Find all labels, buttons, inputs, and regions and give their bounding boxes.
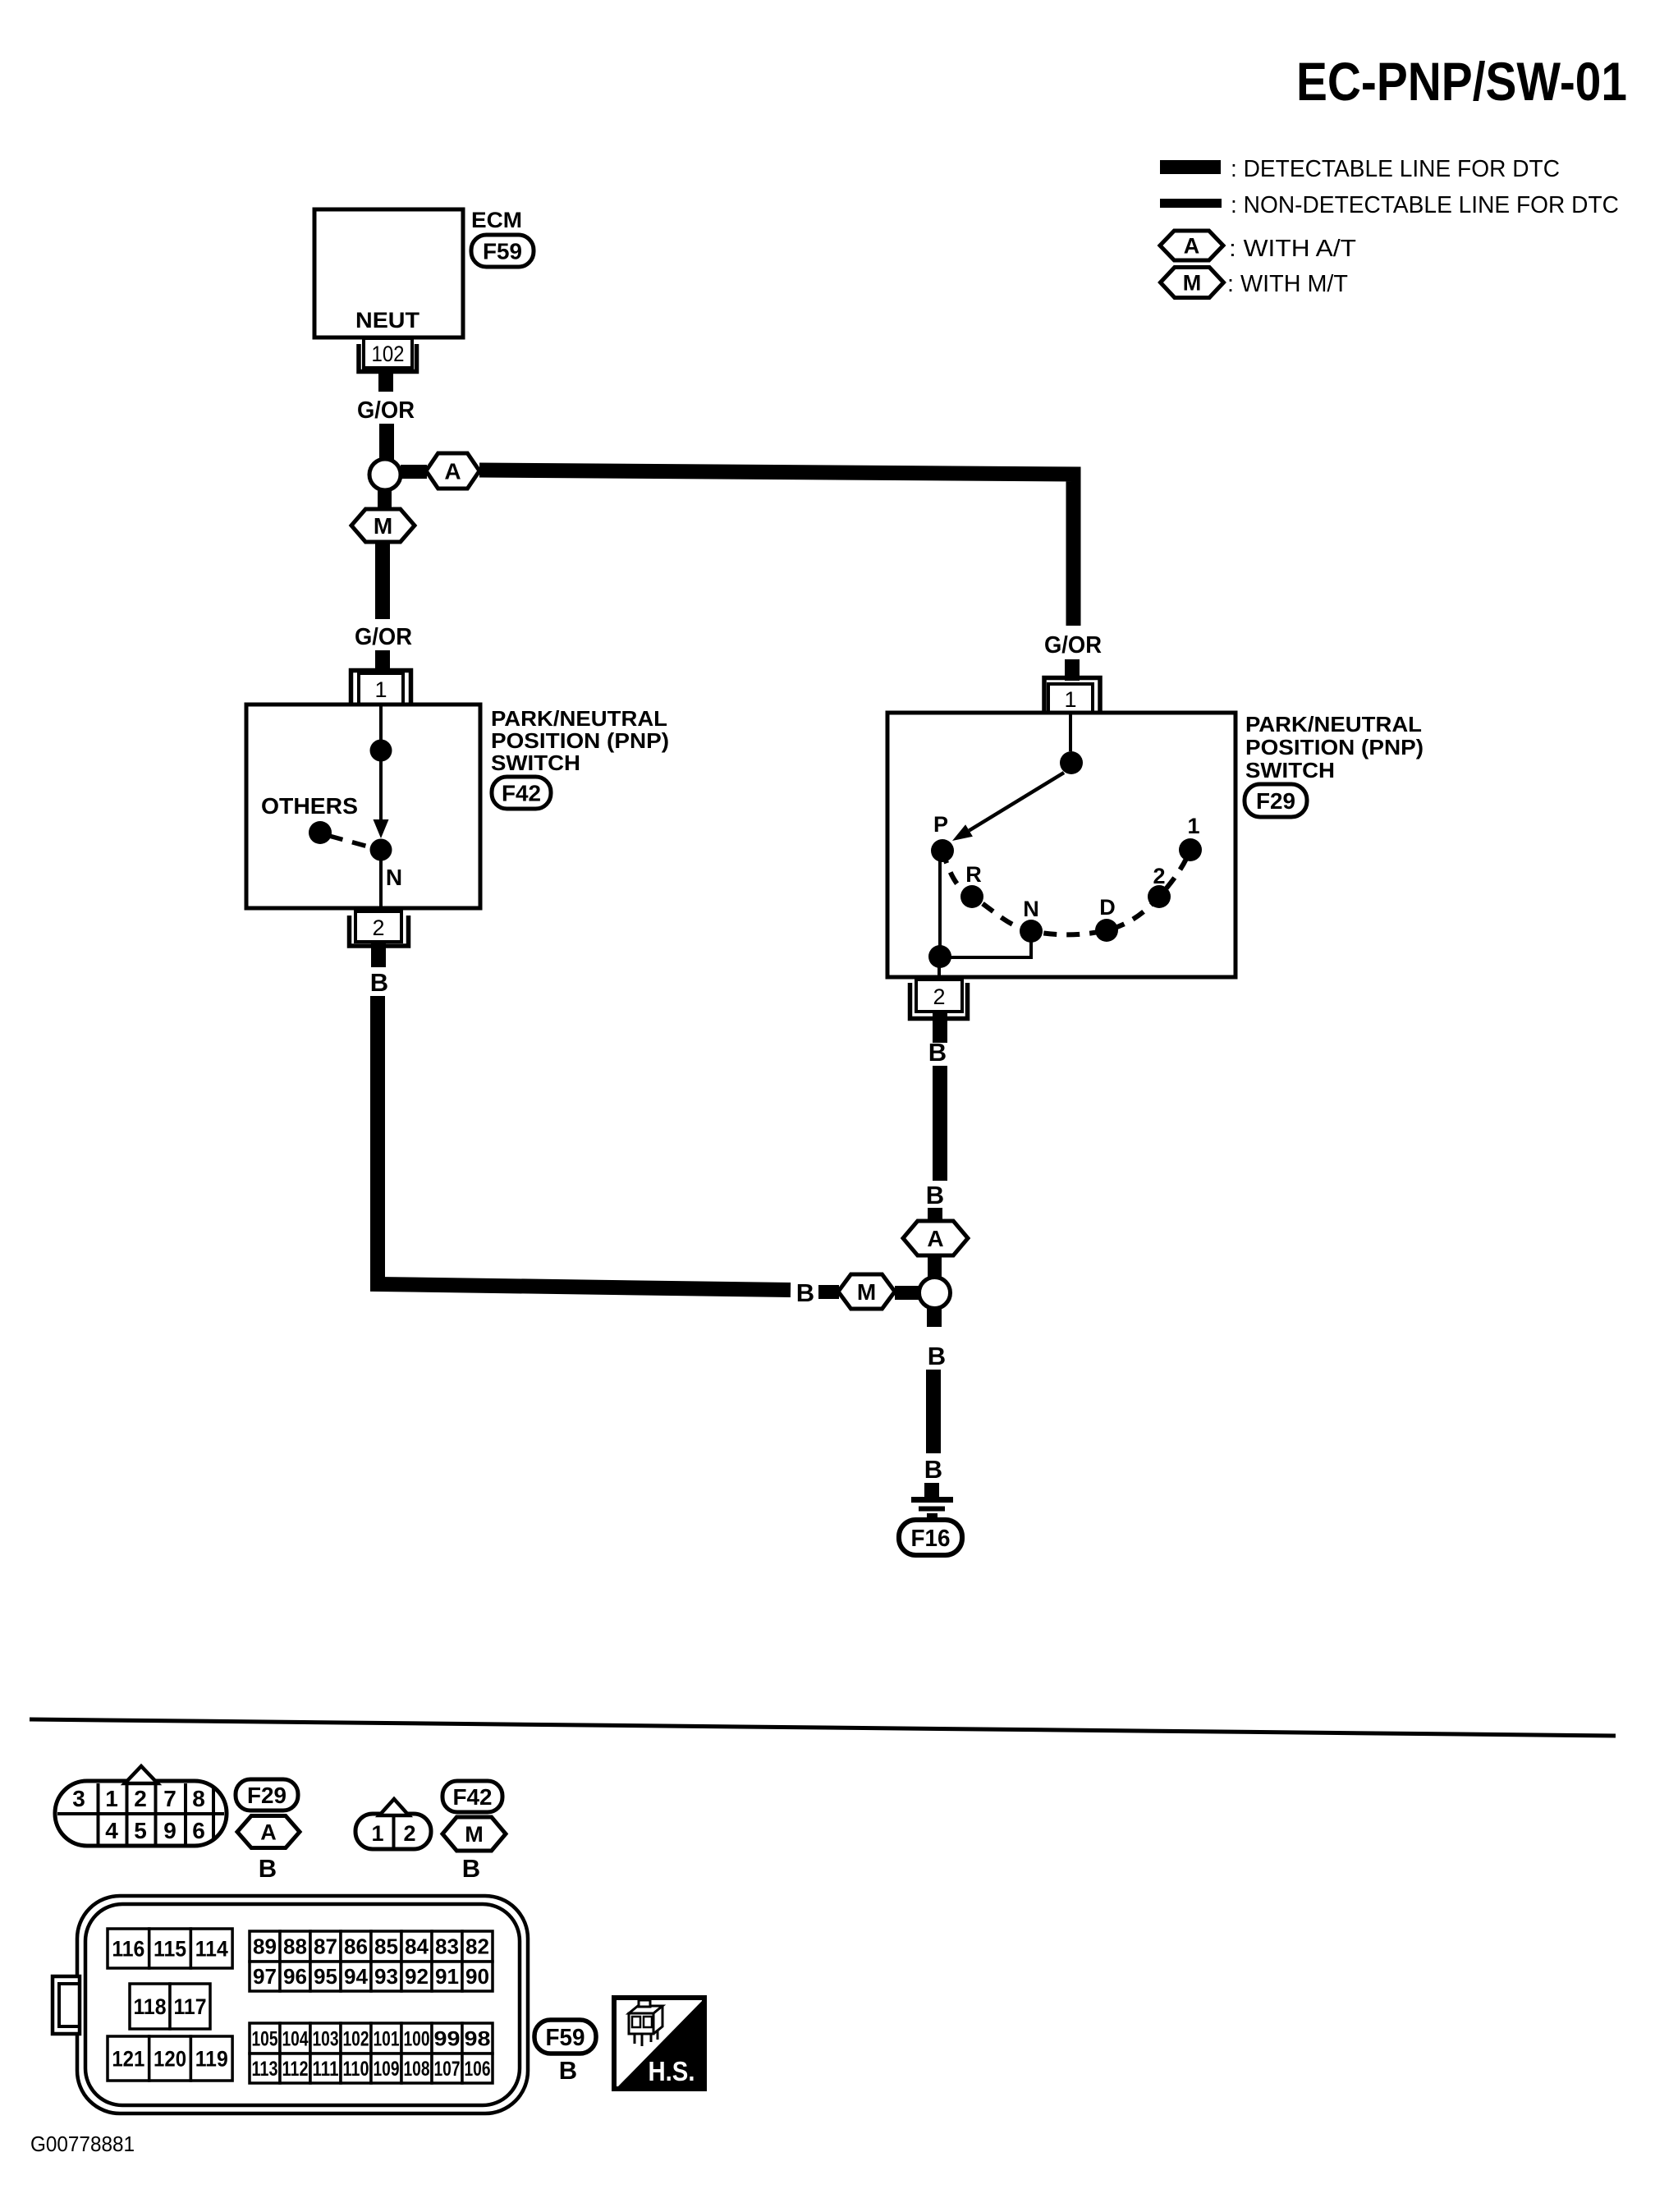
label P [933,812,948,837]
pin 1 box (F42) [359,673,403,704]
junction dot (F29) [928,945,951,968]
svg-text:ECM: ECM [471,208,522,232]
legend flag A: with A/T [1160,231,1356,262]
svg-text:A: A [444,459,461,484]
PNP switch F42 box [246,704,480,908]
svg-text:NEUT: NEUT [355,308,420,333]
wire stub below pin 2 (F42) [371,942,386,967]
wire stub below pin 2 (F29) [933,1012,947,1043]
contact dot 2 [1148,885,1171,908]
pin 2 connector bracket (F29) [910,983,968,1019]
wire stub to ground [924,1483,939,1498]
svg-text:95: 95 [314,1964,337,1989]
label ECM [471,208,522,232]
dashed link OTHERS to N [329,836,371,847]
svg-text:8: 8 [192,1786,205,1811]
wire label B (bottom left) [796,1278,814,1307]
svg-text:B: B [926,1181,944,1209]
svg-text:SWITCH: SWITCH [491,750,580,775]
connector ref F29 oval (face view) [236,1779,298,1810]
svg-text:B: B [559,2056,577,2085]
wire label B (below F42) [370,968,388,997]
svg-text:121: 121 [112,2047,144,2072]
wire label B (below splice) [928,1342,946,1370]
svg-text:104: 104 [282,2027,309,2050]
svg-text:B: B [928,1342,946,1370]
pin 1 connector bracket (F29) [1044,678,1100,712]
F59 pin cells 121-119 [108,2036,232,2081]
connector ref F59 (ECM) [471,235,534,267]
svg-text:101: 101 [374,2027,400,2050]
label 1 (F29 position) [1187,814,1199,838]
svg-text:1: 1 [1187,814,1199,838]
PNP switch F29 box [887,713,1236,977]
svg-text:B: B [370,968,388,997]
contact dot R [960,885,983,908]
svg-text:85: 85 [374,1934,398,1959]
svg-text:1: 1 [1064,687,1076,712]
svg-text:105: 105 [252,2027,278,2050]
wire B from F42 pin 2 to flag M [378,996,791,1290]
svg-text:117: 117 [174,1994,207,2019]
svg-text:115: 115 [154,1937,186,1962]
connector ref F42 oval (face view) [442,1781,502,1812]
wire stub to F29 pin 1 [1065,659,1080,681]
separator rule [30,1719,1616,1736]
svg-text:1: 1 [105,1786,118,1811]
wire label G/OR (left branch) [355,624,412,650]
svg-text:6: 6 [192,1818,205,1843]
contact dot N (F42) [370,839,392,861]
F59 pin grid 105-98 / 113-106 [250,2023,493,2083]
svg-text:93: 93 [374,1964,398,1989]
svg-text:P: P [933,812,948,837]
svg-text:118: 118 [134,1994,167,2019]
label B (face view F59) [559,2056,577,2085]
wire M/T branch down [375,542,390,619]
pin 2 box (F29) [916,980,962,1012]
svg-text:90: 90 [465,1964,489,1989]
wire pin1 to contact (F42) [379,704,383,750]
label N (F29) [1023,897,1039,921]
label D [1099,895,1116,920]
pin 2 connector bracket (F42) [350,916,409,946]
figure id G00778881 [30,2132,135,2156]
contact dot OTHERS [309,821,332,844]
label N (F42) [386,865,402,890]
connector ref F42 oval [492,777,551,809]
svg-text:H.S.: H.S. [649,2056,695,2086]
wire stub to flag A (bottom) [928,1208,942,1223]
label B (face view F29) [259,1854,277,1883]
svg-text:: WITH A/T: : WITH A/T [1229,236,1356,262]
pin 102 connector bracket (ECM) [359,344,417,372]
svg-text:83: 83 [435,1934,459,1959]
svg-text:M: M [465,1822,484,1847]
wire stub below splice [927,1308,942,1327]
dashed selector arc P-R-N-D-2-1 [942,850,1190,934]
svg-text:2: 2 [1153,864,1165,888]
svg-text:102: 102 [372,342,405,366]
svg-text:100: 100 [404,2027,430,2050]
ECM box [314,209,463,337]
wire N to pin 2 (F42) [379,860,383,911]
splice junction node (bottom) [919,1278,951,1309]
connector face view F59 (ECM 121-pin) body [77,1896,528,2113]
wire label B (above flag A) [926,1181,944,1209]
F59 pin cells 116-114 [108,1929,232,1968]
svg-text:9: 9 [163,1818,177,1843]
svg-text:F59: F59 [546,2025,585,2051]
svg-text:119: 119 [195,2047,228,2072]
svg-text:4: 4 [105,1818,118,1843]
legend: detectable line for DTC [1160,156,1560,182]
svg-text:103: 103 [313,2027,339,2050]
svg-text:M: M [857,1279,876,1305]
svg-text:D: D [1099,895,1116,920]
svg-text:N: N [386,865,402,890]
svg-text:107: 107 [434,2058,461,2081]
wire G/OR to splice [379,424,394,460]
wire N to junction (F29) [940,931,1031,957]
svg-text:F29: F29 [247,1783,287,1808]
svg-text:110: 110 [343,2058,369,2081]
svg-text:B: B [259,1854,277,1883]
svg-text:7: 7 [163,1786,177,1811]
wire stub splice to flag A [401,465,427,479]
label PARK/NEUTRAL POSITION (PNP) SWITCH (F29) [1245,712,1423,782]
svg-text:108: 108 [404,2058,430,2081]
svg-text:G00778881: G00778881 [30,2132,135,2156]
svg-text:1: 1 [374,677,387,702]
contact dot D [1095,919,1118,942]
F59 body left key tab [53,1976,80,2034]
svg-text:116: 116 [112,1937,144,1962]
legend: non-detectable line for DTC [1160,192,1619,218]
svg-text:88: 88 [283,1934,307,1959]
svg-text:86: 86 [344,1934,368,1959]
flag A (face view F29) [237,1816,300,1848]
wire label B (above ground) [924,1455,942,1484]
flag A (bottom) [903,1221,968,1255]
svg-text:114: 114 [195,1937,228,1962]
svg-text:84: 84 [405,1934,429,1959]
ground symbol [911,1497,953,1517]
splice junction node (top) [369,459,401,490]
svg-text:F29: F29 [1256,788,1295,814]
svg-text:2: 2 [372,916,384,940]
svg-text:N: N [1023,897,1039,921]
svg-text:OTHERS: OTHERS [261,793,358,819]
label B (face view F42) [462,1854,480,1883]
wire label B (below F29 pin 2) [928,1038,947,1067]
svg-text:5: 5 [134,1818,147,1843]
svg-text:109: 109 [374,2058,400,2081]
wire B down (1) [933,1066,947,1181]
title EC-PNP/SW-01 [1296,51,1627,112]
svg-text:96: 96 [283,1964,307,1989]
label 2 (F29 position) [1153,864,1165,888]
wire stub splice to flag M [378,490,392,512]
wire thick A/T branch to F29 pin 1 [479,470,1074,626]
switch wiper arrow to P (F29) [952,773,1064,841]
pin 1 connector bracket (F42) [351,671,411,704]
svg-text:98: 98 [465,2027,491,2050]
F59 pin grid 89-82 / 97-90 [250,1931,493,1991]
svg-text:M: M [1183,271,1202,296]
label PARK/NEUTRAL POSITION (PNP) SWITCH (F42) [491,706,669,775]
svg-text:: DETECTABLE LINE FOR DTC: : DETECTABLE LINE FOR DTC [1231,156,1560,182]
label R [965,862,982,887]
flag M (face view F42) [442,1817,506,1851]
connector ref F59 oval (face view) [534,2020,596,2054]
svg-text:M: M [374,513,392,539]
svg-text:94: 94 [344,1964,369,1989]
wire P to junction (F29) [938,851,942,957]
contact dot common (F29) [1060,751,1083,774]
contact dot N (F29) [1020,920,1043,943]
svg-text:POSITION (PNP): POSITION (PNP) [491,728,669,753]
contact dot top (F42) [370,740,392,762]
svg-text:F16: F16 [911,1526,951,1552]
svg-text:G/OR: G/OR [357,397,415,424]
wire B to ground [926,1370,941,1453]
svg-text:106: 106 [465,2058,491,2081]
svg-text:120: 120 [154,2047,186,2072]
wire label G/OR (top) [357,397,415,424]
connector face view F29 (9-pin oval) [55,1766,227,1846]
svg-text:PARK/NEUTRAL: PARK/NEUTRAL [491,706,667,731]
svg-text:102: 102 [343,2027,369,2050]
svg-text:113: 113 [252,2058,278,2081]
svg-text:B: B [796,1278,814,1307]
label OTHERS [261,793,358,819]
svg-text:POSITION (PNP): POSITION (PNP) [1245,735,1423,760]
F59 pin cells 118-117 [130,1984,210,2029]
svg-text:PARK/NEUTRAL: PARK/NEUTRAL [1245,712,1422,737]
wire stub flag M to splice [895,1286,919,1300]
wire label G/OR (right branch) [1044,632,1102,659]
svg-text:: WITH M/T: : WITH M/T [1227,271,1348,297]
svg-text:112: 112 [282,2058,309,2081]
flag M (M/T branch) [351,509,415,542]
label NEUT [355,308,420,333]
svg-text:SWITCH: SWITCH [1245,758,1335,782]
svg-text:G/OR: G/OR [1044,632,1102,659]
svg-text:R: R [965,862,982,887]
svg-text:F42: F42 [502,781,541,806]
svg-text:87: 87 [314,1934,337,1959]
svg-text:97: 97 [253,1964,277,1989]
svg-text:91: 91 [435,1964,459,1989]
pin 102 box [364,338,412,368]
connector face view F42 (2-pin) [355,1799,431,1849]
svg-text:B: B [924,1455,942,1484]
contact dot P [931,839,954,862]
wire stub to flag M (bottom) [818,1285,839,1299]
svg-text:A: A [927,1226,943,1251]
wire stub flag A to splice [928,1255,942,1278]
wire junction to pin 2 (F29) [938,957,941,980]
H.S. badge [614,1998,704,2089]
svg-text:A: A [260,1820,277,1845]
connector ref F29 oval [1245,784,1307,817]
svg-text:: NON-DETECTABLE LINE FOR DTC: : NON-DETECTABLE LINE FOR DTC [1231,192,1619,218]
wire G/OR stub below pin 102 [378,366,393,392]
svg-text:1: 1 [371,1821,383,1846]
pin 1 box (F29) [1048,684,1093,713]
svg-text:B: B [928,1038,947,1067]
legend flag M: with M/T [1161,268,1349,298]
svg-text:82: 82 [465,1934,489,1959]
svg-text:111: 111 [313,2058,339,2081]
wire pin1 to contact (F29) [1069,713,1072,751]
svg-text:2: 2 [933,984,945,1009]
svg-text:92: 92 [405,1964,429,1989]
svg-text:F59: F59 [483,239,522,264]
svg-text:2: 2 [134,1786,147,1811]
ground ref F16 oval [899,1520,962,1555]
svg-text:A: A [1184,234,1200,259]
svg-text:EC-PNP/SW-01: EC-PNP/SW-01 [1296,51,1627,112]
svg-text:G/OR: G/OR [355,624,412,650]
switch arrow to N (F42) [374,750,389,838]
flag A (A/T branch) [426,453,479,489]
svg-text:3: 3 [72,1786,85,1811]
svg-text:89: 89 [253,1934,277,1959]
svg-text:F42: F42 [453,1784,493,1810]
wire stub to F42 pin 1 [375,650,390,673]
svg-text:99: 99 [434,2027,461,2050]
pin 2 box (F42) [355,911,401,942]
contact dot 1 [1179,838,1202,861]
flag M (bottom) [838,1274,895,1309]
svg-text:2: 2 [403,1821,415,1846]
svg-text:B: B [462,1854,480,1883]
